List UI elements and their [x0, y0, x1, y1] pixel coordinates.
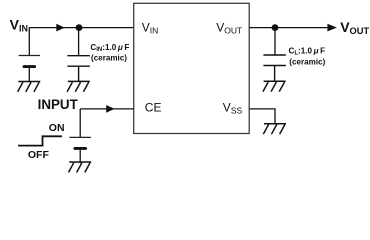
junction dot VOUT/CL [272, 24, 279, 31]
ground below CIN [67, 81, 90, 91]
svg-text:INPUT: INPUT [38, 97, 79, 112]
battery BT1 [19, 56, 40, 82]
wire VIN label down to battery BT1 [28, 28, 30, 56]
arrow on VOUT wire [327, 24, 337, 32]
capacitor CIN [67, 56, 89, 81]
svg-text:CL:1.0 μ F: CL:1.0 μ F [289, 46, 326, 56]
junction dot VIN/CIN [76, 24, 83, 31]
waveform step annotation [18, 136, 62, 145]
svg-text:CE: CE [145, 101, 162, 115]
wire U1 VOUT pin to output arrow [249, 27, 329, 29]
svg-text:VIN: VIN [10, 16, 28, 33]
battery BT2 [70, 137, 91, 163]
ground below BT1 [18, 82, 41, 92]
wire U1 VSS pin to ground [249, 109, 275, 123]
svg-text:(ceramic): (ceramic) [289, 57, 325, 66]
svg-text:CIN:1.0 μ F: CIN:1.0 μ F [90, 43, 129, 53]
wire INPUT down to battery BT2 [79, 109, 81, 137]
ground below CL [263, 81, 286, 91]
svg-text:VOUT: VOUT [340, 19, 369, 36]
arrow on CE wire [106, 105, 114, 113]
ground below BT2 [69, 162, 92, 172]
wire junction down to CIN [78, 28, 80, 56]
svg-text:OFF: OFF [28, 149, 50, 161]
svg-text:(ceramic): (ceramic) [91, 53, 127, 62]
capacitor CL [263, 55, 285, 81]
ground below VSS [263, 124, 286, 134]
wire junction down to CL [274, 28, 276, 55]
wire INPUT to U1 CE pin [80, 108, 134, 110]
wire VIN to U1 VIN pin [29, 27, 133, 29]
IC U1 body [134, 3, 250, 133]
arrow on VIN wire [56, 24, 64, 32]
svg-text:ON: ON [49, 122, 65, 134]
